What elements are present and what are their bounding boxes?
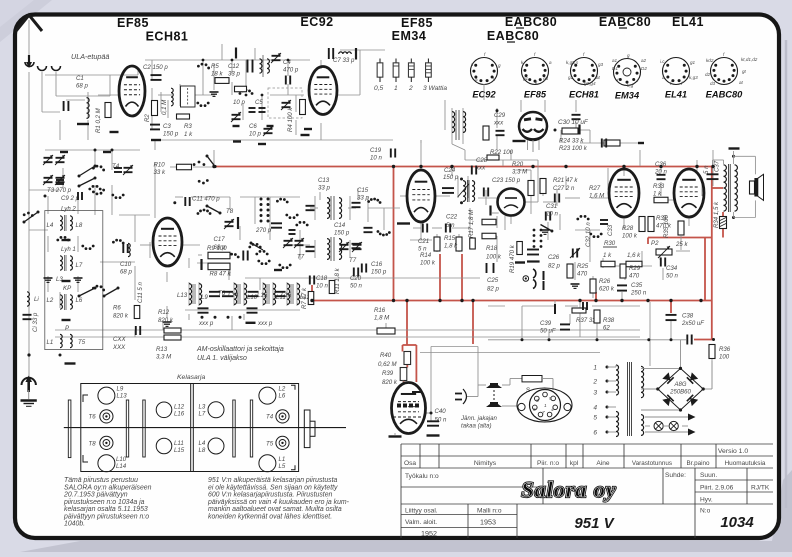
svg-text:250B60: 250B60 (669, 390, 691, 396)
svg-text:EABC80: EABC80 (706, 90, 744, 100)
svg-text:L1: L1 (47, 339, 54, 346)
svg-text:Aine: Aine (596, 460, 610, 467)
svg-text:EF85: EF85 (117, 16, 149, 30)
svg-text:R27: R27 (589, 185, 601, 192)
svg-text:0,1 M: 0,1 M (161, 99, 168, 115)
svg-text:820 k: 820 k (113, 313, 129, 320)
svg-text:T7: T7 (349, 257, 357, 264)
svg-text:1,6 k: 1,6 k (627, 252, 641, 259)
svg-text:R15: R15 (444, 235, 456, 242)
svg-text:EF85: EF85 (524, 90, 547, 100)
svg-text:Br.paino: Br.paino (686, 460, 710, 467)
svg-text:Lyh 1: Lyh 1 (61, 246, 76, 253)
svg-text:g1: g1 (523, 76, 529, 81)
svg-text:5: 5 (549, 396, 552, 402)
svg-text:Piir. n:o: Piir. n:o (537, 460, 559, 467)
svg-text:R4 100 k: R4 100 k (287, 107, 294, 132)
svg-text:Piirt. 2.9.06: Piirt. 2.9.06 (700, 485, 734, 492)
svg-text:C2 150 p: C2 150 p (143, 64, 168, 71)
svg-text:Suun.: Suun. (700, 472, 717, 479)
svg-text:takaa (alta): takaa (alta) (461, 423, 491, 430)
svg-text:R16: R16 (374, 307, 386, 314)
svg-text:C19: C19 (370, 147, 382, 154)
svg-text:T5: T5 (266, 441, 274, 448)
svg-text:50 n: 50 n (666, 273, 678, 280)
svg-text:XXX: XXX (112, 344, 126, 351)
svg-text:R12: R12 (158, 309, 170, 316)
svg-text:1: 1 (544, 403, 547, 409)
svg-text:d3: d3 (710, 81, 716, 86)
svg-text:C34: C34 (666, 265, 678, 272)
svg-text:EL41: EL41 (672, 15, 704, 29)
svg-text:Työkalu n:o: Työkalu n:o (405, 473, 439, 480)
svg-text:R39: R39 (382, 370, 394, 377)
svg-text:C10: C10 (120, 261, 132, 268)
svg-text:10 n: 10 n (546, 211, 558, 218)
svg-text:R21 47 k: R21 47 k (553, 177, 578, 184)
svg-text:R24 33 k: R24 33 k (559, 138, 584, 145)
svg-text:25 k: 25 k (675, 241, 688, 248)
svg-text:R1 0,2 M: R1 0,2 M (95, 107, 102, 133)
svg-text:600 V:n kelasarjapiirustusta.: 600 V:n kelasarjapiirustusta. Piirustust… (208, 492, 333, 499)
svg-text:R13: R13 (156, 346, 168, 353)
svg-text:100: 100 (719, 354, 730, 361)
svg-text:68 p: 68 p (120, 269, 132, 276)
svg-text:620 k: 620 k (599, 286, 615, 293)
svg-text:R26: R26 (599, 278, 611, 285)
svg-text:C6: C6 (249, 123, 257, 130)
svg-text:R9 100: R9 100 (207, 245, 227, 252)
svg-text:1,8 k: 1,8 k (444, 243, 458, 250)
svg-text:10 n: 10 n (316, 283, 328, 290)
svg-text:270 p: 270 p (255, 227, 272, 234)
svg-text:82 p: 82 p (548, 262, 560, 269)
svg-text:Nimitys: Nimitys (474, 460, 497, 467)
svg-text:g: g (627, 53, 630, 58)
svg-text:T7: T7 (297, 254, 305, 261)
svg-text:R10: R10 (154, 162, 166, 169)
svg-text:C40: C40 (435, 408, 447, 415)
svg-text:R40: R40 (380, 352, 392, 359)
svg-text:820 k: 820 k (382, 379, 398, 386)
svg-text:C18: C18 (316, 275, 328, 282)
svg-text:kt,d1,d2: kt,d1,d2 (741, 57, 758, 62)
svg-text:2: 2 (592, 379, 597, 386)
svg-text:L13: L13 (117, 392, 128, 399)
svg-text:R17 1,8 M: R17 1,8 M (468, 209, 475, 238)
svg-text:3: 3 (536, 398, 539, 404)
svg-text:EM34: EM34 (615, 91, 640, 101)
svg-text:g2,g4: g2,g4 (584, 81, 596, 86)
svg-text:RJ/TK: RJ/TK (751, 485, 770, 492)
svg-text:2x50 uF: 2x50 uF (681, 320, 705, 327)
svg-text:a: a (549, 60, 552, 65)
svg-text:EL41: EL41 (665, 90, 687, 100)
svg-text:Hyv.: Hyv. (700, 497, 713, 504)
svg-text:D1: D1 (612, 66, 618, 71)
svg-text:R33: R33 (653, 183, 665, 190)
svg-text:L6: L6 (76, 297, 83, 304)
svg-text:SALORA oy:n alkuperäiseen: SALORA oy:n alkuperäiseen (64, 484, 152, 491)
svg-text:P2: P2 (651, 240, 659, 247)
svg-text:18 k: 18 k (211, 71, 223, 78)
svg-text:250 n: 250 n (630, 290, 647, 297)
svg-text:R29: R29 (629, 265, 641, 272)
svg-text:kelasarjan osalta 5.11.1953: kelasarjan osalta 5.11.1953 (64, 506, 148, 513)
svg-text:150 p: 150 p (334, 230, 350, 237)
svg-text:1: 1 (394, 85, 398, 92)
svg-text:L14: L14 (116, 463, 127, 470)
svg-text:R8 47 k: R8 47 k (210, 271, 232, 278)
svg-text:AM-oskillaattori ja sekoittaja: AM-oskillaattori ja sekoittaja (196, 346, 284, 353)
svg-text:A8G: A8G (673, 382, 686, 388)
svg-text:C1: C1 (76, 75, 84, 82)
svg-text:100 k: 100 k (420, 260, 436, 267)
svg-text:951 V:n alkuperäistä kelasarja: 951 V:n alkuperäistä kelasarjan piirustu… (208, 477, 338, 484)
svg-text:Varastotunnus: Varastotunnus (632, 460, 672, 467)
svg-text:a: a (662, 75, 665, 80)
svg-text:4: 4 (593, 405, 597, 412)
svg-text:Huomautuksia: Huomautuksia (725, 460, 766, 467)
svg-text:xxx: xxx (493, 120, 504, 127)
svg-text:Jänn. jakajan: Jänn. jakajan (460, 415, 498, 422)
svg-text:R20: R20 (512, 161, 524, 168)
svg-text:C15: C15 (357, 187, 369, 194)
svg-text:50 n: 50 n (435, 416, 447, 423)
svg-text:mankin aaltoalueet ovat samat.: mankin aaltoalueet ovat samat. Muilta os… (208, 506, 342, 513)
svg-text:L8: L8 (199, 447, 206, 454)
svg-text:päivättyyn piirustukseen n:o: päivättyyn piirustukseen n:o (63, 513, 149, 520)
svg-text:33 k: 33 k (154, 169, 166, 176)
svg-text:L16: L16 (174, 410, 185, 417)
svg-text:L6: L6 (279, 392, 286, 399)
svg-text:T8: T8 (89, 441, 97, 448)
svg-text:D2: D2 (641, 66, 647, 71)
svg-text:T3 270 p: T3 270 p (47, 187, 72, 194)
svg-text:33 p: 33 p (318, 185, 330, 192)
svg-text:R14: R14 (420, 252, 432, 259)
svg-text:5 n: 5 n (703, 165, 710, 174)
svg-text:C13: C13 (318, 177, 330, 184)
svg-text:R18: R18 (486, 245, 498, 252)
svg-text:82 p: 82 p (487, 285, 499, 292)
svg-text:C5: C5 (255, 99, 263, 106)
svg-text:470: 470 (629, 273, 640, 280)
svg-text:L7: L7 (76, 262, 83, 269)
svg-text:ECH81: ECH81 (569, 90, 599, 100)
svg-text:KP: KP (63, 285, 72, 292)
svg-text:2: 2 (408, 85, 413, 92)
svg-text:C35: C35 (631, 282, 643, 289)
svg-text:xxx p: xxx p (257, 320, 273, 327)
svg-text:5 n: 5 n (446, 222, 455, 229)
svg-text:R28: R28 (622, 225, 634, 232)
svg-text:Liittyy osal.: Liittyy osal. (405, 508, 438, 515)
svg-text:1 k: 1 k (653, 191, 662, 198)
svg-text:g1: g1 (690, 60, 696, 65)
svg-text:1953: 1953 (480, 518, 496, 527)
svg-text:ULA-etupää: ULA-etupää (71, 52, 109, 61)
svg-text:R2: R2 (144, 114, 151, 122)
svg-text:C39: C39 (540, 320, 552, 327)
svg-text:6: 6 (533, 407, 536, 413)
svg-text:C14: C14 (334, 222, 346, 229)
svg-text:R35 100: R35 100 (663, 214, 670, 238)
svg-text:50 uF: 50 uF (540, 328, 557, 335)
svg-text:Osa: Osa (404, 460, 416, 467)
svg-text:951 V: 951 V (574, 515, 615, 532)
svg-text:1040b.: 1040b. (64, 521, 85, 528)
svg-text:1034: 1034 (720, 514, 754, 531)
svg-text:62: 62 (603, 325, 610, 332)
svg-text:R25: R25 (577, 263, 589, 270)
svg-text:T5: T5 (78, 339, 86, 346)
svg-text:470 p: 470 p (283, 67, 299, 74)
svg-text:EABC80: EABC80 (487, 29, 539, 43)
svg-text:R36: R36 (719, 346, 731, 353)
svg-text:C17: C17 (214, 236, 226, 243)
svg-text:3,3 M: 3,3 M (156, 354, 172, 361)
svg-text:T8: T8 (226, 208, 234, 215)
svg-text:3: 3 (593, 390, 597, 397)
svg-text:C28: C28 (476, 157, 488, 164)
svg-text:d2: d2 (705, 72, 711, 77)
svg-text:100 k: 100 k (622, 233, 638, 240)
svg-text:C25: C25 (487, 277, 499, 284)
svg-text:1 k: 1 k (184, 131, 193, 138)
svg-text:R7 47 k: R7 47 k (301, 287, 308, 309)
svg-text:1: 1 (593, 365, 597, 372)
svg-text:L5: L5 (279, 463, 286, 470)
svg-text:1,6 M: 1,6 M (589, 193, 605, 200)
svg-text:33 p: 33 p (228, 71, 240, 78)
svg-text:470: 470 (577, 271, 588, 278)
svg-text:ULA 1. välijakso: ULA 1. välijakso (197, 355, 247, 362)
svg-text:Suhde:: Suhde: (665, 472, 686, 479)
svg-text:EABC80: EABC80 (505, 15, 557, 29)
svg-text:R23 100 k: R23 100 k (559, 145, 588, 152)
svg-text:L7: L7 (199, 410, 206, 417)
svg-text:150 p: 150 p (371, 269, 387, 276)
svg-text:L8: L8 (76, 222, 83, 229)
svg-text:4: 4 (551, 407, 554, 413)
svg-text:CXX: CXX (113, 336, 126, 343)
svg-text:EC92: EC92 (300, 15, 333, 29)
svg-text:ECH81: ECH81 (146, 30, 189, 44)
svg-text:10 n: 10 n (370, 155, 382, 162)
svg-text:Li: Li (34, 296, 39, 303)
svg-text:L10: L10 (116, 456, 127, 463)
svg-text:R37 33: R37 33 (576, 317, 596, 324)
svg-text:R5: R5 (211, 63, 219, 70)
svg-text:C38: C38 (682, 313, 694, 320)
svg-text:C11 5 n: C11 5 n (137, 281, 144, 303)
svg-text:6: 6 (593, 430, 597, 437)
svg-text:a1: a1 (612, 58, 618, 63)
svg-text:g3: g3 (543, 76, 549, 81)
svg-text:a: a (475, 77, 478, 82)
svg-text:1 k: 1 k (603, 252, 612, 259)
svg-text:C9 2 p: C9 2 p (61, 195, 80, 202)
svg-text:a2: a2 (641, 58, 647, 63)
svg-text:T6: T6 (89, 414, 97, 421)
svg-text:k,g5,s: k,g5,s (566, 60, 579, 65)
svg-text:EABC80: EABC80 (599, 15, 651, 29)
svg-text:k,g': k,g' (627, 83, 634, 88)
svg-text:ei ole käytettävissä. Sen sija: ei ole käytettävissä. Sen sijaan on käyt… (208, 484, 338, 491)
svg-text:R30: R30 (604, 240, 616, 247)
svg-text:L1: L1 (279, 456, 286, 463)
svg-text:C29: C29 (494, 112, 506, 119)
svg-text:N:o: N:o (700, 508, 711, 515)
svg-text:150 p: 150 p (163, 131, 179, 138)
svg-text:C16: C16 (371, 261, 383, 268)
svg-text:Kelasarja: Kelasarja (177, 374, 206, 381)
svg-text:3,3 M: 3,3 M (512, 169, 528, 176)
svg-text:0,62 M: 0,62 M (378, 361, 398, 368)
svg-text:L4: L4 (47, 222, 54, 229)
svg-text:1,8 M: 1,8 M (374, 315, 390, 322)
svg-text:päiväyksissä on vain 4 kuukaud: päiväyksissä on vain 4 kuukauden ero ja … (207, 499, 350, 506)
svg-text:C27 2 n: C27 2 n (553, 185, 575, 192)
svg-text:1952: 1952 (421, 529, 437, 538)
svg-text:R3: R3 (184, 123, 192, 130)
svg-text:C12: C12 (228, 63, 240, 70)
svg-text:C23 150 p: C23 150 p (492, 177, 521, 184)
svg-text:100 k: 100 k (486, 253, 502, 260)
svg-text:Lyh 2: Lyh 2 (61, 206, 76, 213)
svg-text:C11 470 p: C11 470 p (192, 196, 220, 203)
svg-text:EM34: EM34 (392, 29, 427, 43)
svg-text:Malli n:o: Malli n:o (477, 508, 502, 515)
svg-text:R6: R6 (113, 305, 121, 312)
svg-text:C26: C26 (548, 254, 560, 261)
svg-text:3 Wattia: 3 Wattia (423, 85, 447, 92)
svg-text:kpl: kpl (570, 460, 579, 467)
svg-text:R19 470 k: R19 470 k (509, 244, 516, 273)
svg-text:C3: C3 (163, 123, 171, 130)
svg-text:10 p: 10 p (249, 131, 261, 138)
svg-text:68 p: 68 p (76, 83, 88, 90)
svg-text:Tämä piirustus perustuu: Tämä piirustus perustuu (64, 477, 138, 484)
svg-text:L13: L13 (177, 292, 188, 299)
svg-text:i.c.: i.c. (660, 59, 666, 64)
svg-text:piirustukseen n:o 1034a ja: piirustukseen n:o 1034a ja (63, 499, 145, 506)
svg-text:C21: C21 (418, 238, 429, 245)
svg-text:C20: C20 (350, 275, 362, 282)
svg-text:L15: L15 (257, 292, 268, 299)
svg-text:koneiden kytkennät ovat lähes: koneiden kytkennät ovat lähes identtiset… (208, 513, 332, 520)
svg-text:g3: g3 (598, 62, 604, 67)
svg-text:Versio 1.0: Versio 1.0 (718, 448, 748, 455)
svg-text:k,g3: k,g3 (689, 75, 698, 80)
svg-text:T4: T4 (266, 414, 274, 421)
svg-text:50 n: 50 n (350, 283, 362, 290)
svg-text:C7 33 p: C7 33 p (333, 57, 355, 64)
svg-text:150 p: 150 p (443, 174, 459, 181)
svg-text:g: g (498, 63, 501, 68)
svg-text:10 p: 10 p (233, 99, 245, 106)
svg-text:0,5: 0,5 (374, 85, 383, 92)
svg-text:L9: L9 (201, 294, 208, 301)
svg-text:EF85: EF85 (401, 16, 433, 30)
svg-text:820 k: 820 k (158, 317, 174, 324)
svg-text:L15: L15 (174, 447, 185, 454)
svg-text:L2: L2 (47, 297, 54, 304)
svg-text:20.7.1953 päivättyyn: 20.7.1953 päivättyyn (63, 492, 128, 499)
svg-text:C33: C33 (607, 224, 614, 236)
svg-text:Salora oy: Salora oy (521, 477, 616, 502)
svg-text:C31: C31 (546, 203, 557, 210)
svg-text:33 p: 33 p (357, 195, 369, 202)
svg-text:7: 7 (542, 410, 545, 416)
svg-text:C30 10 uF: C30 10 uF (558, 119, 589, 126)
svg-text:R38: R38 (603, 317, 615, 324)
svg-text:Ci 33 p: Ci 33 p (32, 312, 39, 332)
svg-text:xxx p: xxx p (198, 320, 214, 327)
svg-text:g1: g1 (568, 75, 574, 80)
svg-text:C22: C22 (446, 214, 458, 221)
svg-text:Valm. aloit.: Valm. aloit. (405, 519, 437, 526)
svg-text:5: 5 (593, 415, 597, 422)
svg-text:kd2: kd2 (706, 58, 714, 63)
